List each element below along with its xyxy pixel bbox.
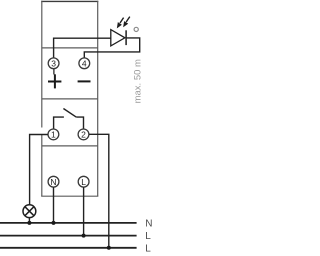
enclosure bottom edge bbox=[41, 195, 98, 197]
photodiode D1 triangle bbox=[111, 30, 125, 46]
daylight symbol (small circle) bbox=[134, 27, 138, 31]
terminal 4 bbox=[79, 58, 90, 69]
light arrow 1 bbox=[118, 18, 124, 28]
svg-text:1: 1 bbox=[51, 130, 56, 140]
terminal 1 bbox=[48, 129, 59, 140]
enclosure top edge bbox=[41, 0, 98, 2]
terminal 2 bbox=[78, 129, 89, 140]
terminal 3 bbox=[48, 58, 59, 69]
wire from lamp to N line bbox=[28, 218, 30, 223]
output section divider bbox=[42, 145, 98, 147]
wire from terminal L to L line bbox=[83, 187, 85, 235]
terminal L bbox=[78, 176, 89, 187]
minus polarity mark bbox=[78, 80, 91, 82]
wire from terminal 1 to lamp bbox=[30, 135, 48, 205]
L bus line bbox=[0, 235, 137, 237]
lamp E1 bbox=[23, 205, 36, 218]
svg-text:L: L bbox=[145, 243, 151, 254]
svg-text:3: 3 bbox=[51, 59, 56, 69]
svg-text:L: L bbox=[145, 231, 151, 242]
photodiode D1 cathode bar bbox=[125, 30, 127, 45]
junction: terminal L to L line bbox=[82, 234, 86, 238]
enclosure left edge (upper) bbox=[41, 1, 43, 128]
relay contact: stub above terminal 1 bbox=[54, 117, 64, 129]
svg-text:4: 4 bbox=[82, 59, 87, 69]
wire from terminal 2 down to switched line bbox=[89, 134, 109, 247]
svg-text:N: N bbox=[145, 218, 152, 229]
enclosure left edge (lower) bbox=[41, 134, 43, 196]
plus polarity mark bbox=[48, 69, 61, 88]
sensor section divider bottom bbox=[42, 98, 98, 100]
switched L bus line bbox=[0, 247, 137, 249]
svg-text:2: 2 bbox=[81, 130, 86, 140]
enclosure right edge bbox=[97, 1, 99, 197]
svg-text:max. 50 m: max. 50 m bbox=[133, 59, 144, 103]
relay contact: stub above terminal 2 bbox=[76, 117, 83, 129]
wire from terminal N to N line bbox=[53, 187, 55, 223]
svg-text:L: L bbox=[81, 177, 86, 187]
svg-text:N: N bbox=[50, 177, 56, 187]
terminal N bbox=[48, 176, 59, 187]
junction: terminal 2 wire to switched line bbox=[107, 246, 111, 250]
sensor section divider top bbox=[42, 47, 98, 49]
junction: lamp to N line bbox=[27, 221, 31, 225]
N bus line bbox=[0, 222, 137, 224]
wire from terminal 3 up and right to photodiode anode bbox=[54, 38, 111, 58]
relay contact blade bbox=[63, 109, 76, 118]
light arrow 2 bbox=[124, 17, 130, 27]
wire from photodiode cathode around right and back to terminal 4 bbox=[84, 38, 139, 58]
junction: terminal N to N line bbox=[52, 221, 56, 225]
